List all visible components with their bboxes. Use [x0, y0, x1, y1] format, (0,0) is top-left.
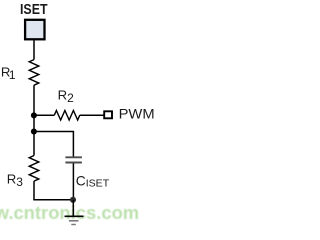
wire: R3 to bottom rail	[33, 181, 35, 200]
resistor R1	[29, 60, 39, 86]
svg-text:ISET: ISET	[20, 1, 48, 18]
svg-text:R2: R2	[58, 87, 75, 105]
wire: R2 to PWM terminal	[80, 114, 104, 116]
wire: node B to capacitor branch (top)	[34, 132, 73, 157]
capacitor CISET bottom plate	[65, 162, 82, 164]
svg-text:R3: R3	[7, 172, 24, 190]
node B (junction dot)	[31, 128, 37, 134]
wire: node A to R2	[34, 114, 54, 116]
wire: bottom rail	[33, 199, 73, 201]
wire: node B down to R3	[33, 132, 35, 156]
terminal box ISET	[25, 20, 44, 40]
svg-text:R1: R1	[1, 65, 16, 83]
node A (junction dot)	[31, 112, 37, 118]
wire: node A to node B	[33, 116, 35, 132]
resistor R3	[29, 156, 39, 182]
node C (junction dot at ground)	[70, 197, 76, 203]
svg-text:www.cntronics.com: www.cntronics.com	[0, 202, 139, 223]
wire: capacitor to bottom rail	[72, 163, 74, 199]
svg-text:PWM: PWM	[119, 107, 155, 122]
terminal box PWM	[104, 111, 112, 118]
capacitor CISET top plate	[65, 156, 82, 158]
ground	[65, 200, 84, 225]
wire: R1 to node A	[33, 85, 35, 115]
resistor R2	[54, 111, 79, 121]
svg-text:CISET: CISET	[76, 174, 110, 190]
wire: ISET box to R1	[33, 40, 35, 59]
